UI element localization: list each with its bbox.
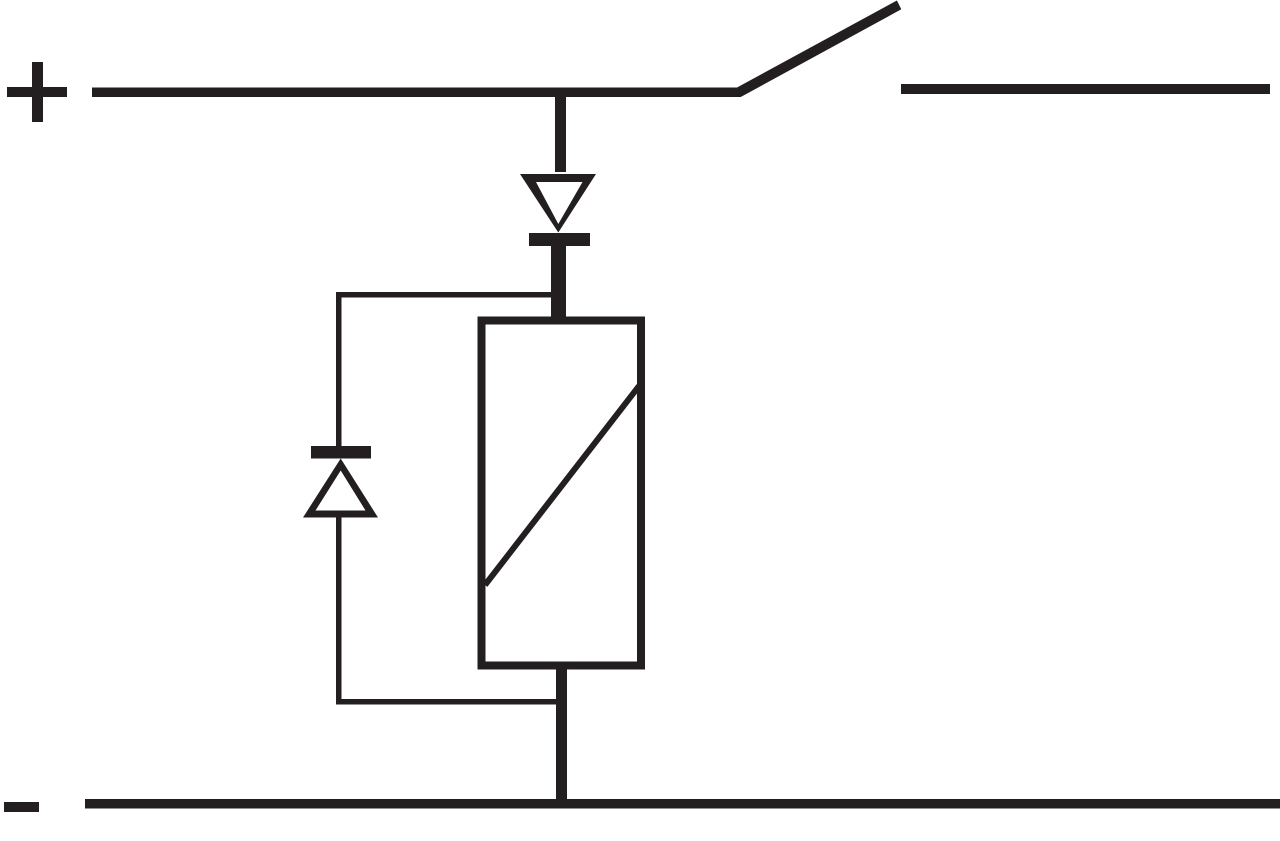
diode D2 cathode bar [311, 446, 371, 459]
diode D1 triangle [520, 174, 596, 233]
diode D1 cathode bar [529, 233, 590, 246]
coil diagonal stripe [485, 386, 639, 585]
loop wire left vertical lower [336, 517, 342, 704]
loop wire left vertical upper [336, 292, 342, 447]
loop wire bottom horizontal [336, 699, 558, 705]
wire top left [92, 88, 741, 98]
wire top right [901, 84, 1270, 94]
plus terminal [7, 62, 67, 122]
minus terminal [4, 802, 39, 812]
relay coil K1 box [482, 321, 642, 666]
diode D2 triangle [303, 459, 378, 518]
wire drop from junction [555, 96, 566, 172]
wire stub above coil [551, 246, 566, 317]
wire bottom [85, 799, 1280, 809]
switch S1 arm [737, 1, 902, 97]
wire stub below coil [556, 669, 567, 804]
loop wire top horizontal [336, 292, 558, 298]
